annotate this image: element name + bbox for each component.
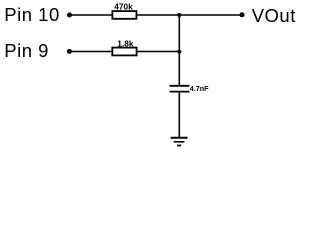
- svg-text:Pin 9: Pin 9: [4, 40, 49, 61]
- svg-text:1.8k: 1.8k: [117, 38, 134, 48]
- svg-text:4.7nF: 4.7nF: [190, 84, 209, 93]
- svg-text:Pin 10: Pin 10: [4, 4, 59, 25]
- svg-text:470k: 470k: [114, 2, 133, 12]
- svg-text:VOut: VOut: [252, 5, 296, 26]
